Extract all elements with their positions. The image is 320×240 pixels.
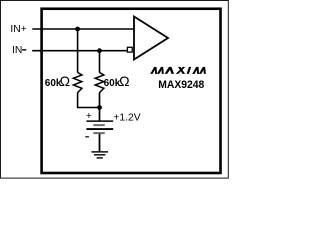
svg-text:IN+: IN+ <box>10 24 26 35</box>
svg-text:Ω: Ω <box>119 73 129 89</box>
battery V1 plate short 1 <box>93 124 104 126</box>
svg-text:Ω: Ω <box>60 73 70 89</box>
wire IN+ horizontal <box>32 28 134 30</box>
wire battery to ground <box>99 134 101 152</box>
svg-text:MAX9248: MAX9248 <box>158 79 204 91</box>
resistor R2 60k zigzag <box>95 72 104 92</box>
ground symbol <box>91 152 108 158</box>
battery V1 plate long top <box>86 120 113 122</box>
resistor R1 60k zigzag <box>73 72 82 92</box>
svg-text:IN: IN <box>12 45 22 56</box>
wire left resistor bottom lead <box>78 93 100 108</box>
battery V1 plate short 2 <box>93 132 104 134</box>
battery V1 minus label <box>85 136 89 138</box>
op-amp U1 comparator triangle <box>134 17 168 60</box>
svg-text:+1.2V: +1.2V <box>113 112 140 123</box>
schematic frame <box>42 9 221 173</box>
hysteresis square on inverting input <box>127 47 132 52</box>
node junction dot on IN+ <box>75 27 80 32</box>
node junction dot on IN- <box>97 48 102 53</box>
wire right resistor top lead <box>99 51 101 73</box>
battery V1 plate long bottom <box>86 128 113 130</box>
wire left resistor top lead <box>77 29 79 73</box>
MAXIM logo <box>150 67 206 74</box>
outer thin border <box>1 1 229 179</box>
wire IN- horizontal <box>32 50 127 52</box>
wire right resistor bottom lead to battery <box>99 93 101 121</box>
node junction dot bottom <box>97 105 102 110</box>
